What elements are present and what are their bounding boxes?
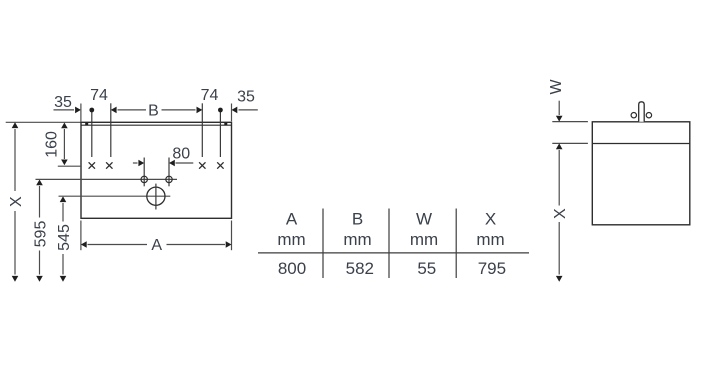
dim 80: left tick through hole xyxy=(143,158,145,187)
drill line 2 xyxy=(110,103,112,157)
dim X right: bottom arrow xyxy=(556,276,563,282)
dim 545: top arrow xyxy=(60,196,67,202)
dim X right: lower line xyxy=(558,222,560,275)
svg-text:582: 582 xyxy=(346,259,374,278)
svg-text:A: A xyxy=(286,210,298,229)
dim B: left line xyxy=(118,109,147,111)
dim 80: right arrow xyxy=(169,160,175,167)
dim 80: right tick through hole xyxy=(168,158,170,187)
dim A: left line xyxy=(88,244,148,246)
dim 545: bottom arrow xyxy=(60,276,67,282)
dim A: right arrow xyxy=(226,241,232,248)
svg-text:545: 545 xyxy=(56,224,73,251)
dim X right: upper line xyxy=(558,150,560,206)
table vertical rule 3 xyxy=(455,209,457,279)
dim 35 right: line xyxy=(239,109,258,111)
svg-text:35: 35 xyxy=(54,94,72,111)
dim 595: bottom arrow xyxy=(36,276,43,282)
drill line 4 xyxy=(219,110,221,157)
small hole left xyxy=(141,176,147,182)
svg-text:74: 74 xyxy=(201,87,219,104)
bracket mark right xyxy=(224,123,227,126)
dim A: left tick xyxy=(80,221,82,251)
drill line 1 xyxy=(91,110,93,157)
svg-text:W: W xyxy=(416,210,432,229)
svg-text:B: B xyxy=(148,103,159,120)
svg-text:A: A xyxy=(151,237,162,254)
svg-text:B: B xyxy=(352,210,363,229)
dim 35 left: line xyxy=(54,109,75,111)
dim 80: left line xyxy=(133,162,138,164)
table vertical rule 1 xyxy=(322,209,324,279)
dim 35 left: arrow xyxy=(75,107,81,114)
small hole right xyxy=(166,176,172,182)
dim B: right arrow xyxy=(197,107,203,114)
faucet handle right xyxy=(646,113,651,118)
dim A: right line xyxy=(167,244,226,246)
dim 160: top arrow xyxy=(61,123,68,129)
dim W: upper line xyxy=(558,101,560,115)
x-mark 2 xyxy=(106,162,112,168)
side view basin divider xyxy=(592,143,690,145)
svg-text:55: 55 xyxy=(417,259,436,278)
svg-text:795: 795 xyxy=(478,259,506,278)
svg-text:74: 74 xyxy=(90,87,108,104)
svg-text:800: 800 xyxy=(278,259,306,278)
faucet handle left xyxy=(631,113,636,118)
svg-text:80: 80 xyxy=(172,146,190,163)
svg-text:W: W xyxy=(548,79,565,95)
big hole vertical crosshair xyxy=(155,184,157,210)
wire: 595 extension line through small holes xyxy=(36,178,178,180)
svg-text:595: 595 xyxy=(32,221,49,248)
dim 595: upper line xyxy=(39,186,41,218)
svg-text:35: 35 xyxy=(237,89,255,106)
table vertical rule 2 xyxy=(388,209,390,279)
dim 35 left: tick xyxy=(80,104,82,122)
dim X left: top arrow xyxy=(12,122,19,128)
svg-text:X: X xyxy=(8,196,25,207)
dim 80: left arrow xyxy=(138,160,144,167)
bracket mark left xyxy=(85,123,88,126)
dim X left: lower line xyxy=(14,211,16,275)
big hole xyxy=(147,187,165,205)
drill line 3 xyxy=(201,103,203,157)
wire: W top extension xyxy=(552,121,588,123)
dim B: right line xyxy=(162,109,196,111)
dim 545: upper line xyxy=(62,203,64,222)
dim A: right tick xyxy=(231,221,233,251)
dim A: left arrow xyxy=(81,241,87,248)
table horizontal rule xyxy=(258,252,529,254)
cabinet plan inner top line xyxy=(81,124,232,126)
dim 80: right line xyxy=(176,162,194,164)
dim 160: bottom arrow xyxy=(61,160,68,166)
faucet body xyxy=(639,102,645,122)
dim 595: lower line xyxy=(39,251,41,275)
x-mark 3 xyxy=(199,162,205,168)
drill dot 4 xyxy=(218,108,223,113)
wire: X top extension line xyxy=(6,121,81,123)
dim X right: up arrow xyxy=(556,143,563,149)
svg-text:mm: mm xyxy=(476,230,504,249)
dim X left: upper line xyxy=(14,129,16,191)
dim 35 right: tick xyxy=(231,104,233,122)
x-mark 1 xyxy=(89,162,95,168)
svg-text:mm: mm xyxy=(343,230,371,249)
dim 545: lower line xyxy=(62,254,64,275)
drill dot 1 xyxy=(89,108,94,113)
wire: 160 bottom extension xyxy=(58,165,81,167)
dim 160: line xyxy=(63,129,65,159)
svg-text:160: 160 xyxy=(44,131,61,158)
svg-text:mm: mm xyxy=(277,230,305,249)
x-mark 4 xyxy=(217,162,223,168)
wire: 545 extension line through big hole xyxy=(59,195,171,197)
cabinet plan body rect xyxy=(81,122,232,218)
dim B: left arrow xyxy=(111,107,117,114)
dim W: down arrow xyxy=(556,116,563,122)
dim 595: top arrow xyxy=(36,180,43,186)
wire: W bottom extension xyxy=(552,142,588,144)
dim X left: bottom arrow xyxy=(12,276,19,282)
svg-text:mm: mm xyxy=(410,230,438,249)
svg-text:X: X xyxy=(552,208,569,219)
side view cabinet rect xyxy=(592,122,690,225)
svg-text:X: X xyxy=(485,210,496,229)
dim 35 right: arrow xyxy=(232,107,238,114)
